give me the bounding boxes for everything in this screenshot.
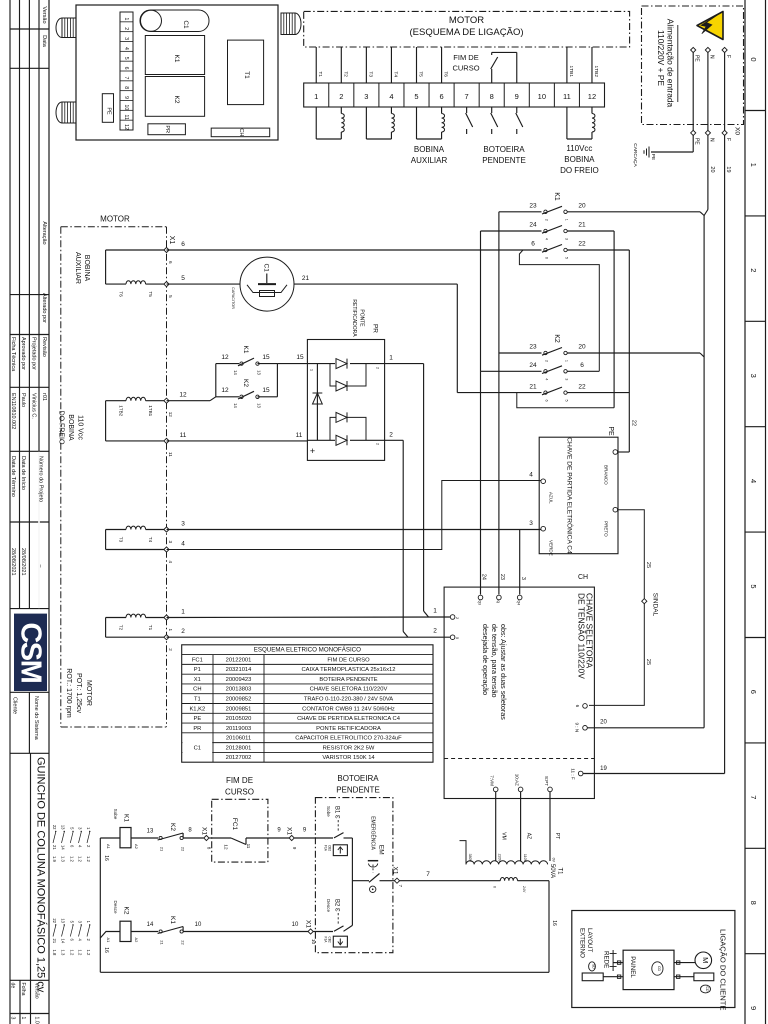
svg-text:T6: T6 — [119, 291, 124, 297]
svg-text:F1A: F1A — [324, 937, 328, 944]
svg-text:VARISTOR 150K 14: VARISTOR 150K 14 — [322, 755, 375, 761]
svg-text:FC1: FC1 — [231, 818, 238, 831]
svg-text:4: 4 — [389, 92, 393, 101]
svg-text:0V: 0V — [551, 858, 555, 863]
svg-text:EXTERNO: EXTERNO — [579, 928, 586, 958]
svg-text:10: 10 — [292, 922, 299, 928]
svg-text:AUXILIAR: AUXILIAR — [411, 156, 448, 165]
svg-text:A1: A1 — [106, 844, 111, 850]
svg-text:SD: SD — [591, 964, 595, 969]
svg-text:C1: C1 — [182, 20, 189, 29]
svg-text:PE: PE — [607, 426, 614, 436]
svg-text:12: 12 — [221, 387, 229, 394]
svg-text:21: 21 — [578, 222, 586, 229]
svg-text:C1: C1 — [263, 264, 270, 273]
svg-text:20: 20 — [578, 203, 586, 210]
svg-text:1: 1 — [389, 355, 393, 362]
svg-text:K2: K2 — [169, 823, 176, 831]
svg-text:F1A: F1A — [324, 845, 328, 852]
svg-text:19: 19 — [725, 166, 731, 172]
svg-text:PR: PR — [193, 726, 201, 732]
svg-text:110V: 110V — [523, 854, 527, 863]
svg-text:LAYOUT: LAYOUT — [586, 928, 593, 953]
svg-text:MOTOR: MOTOR — [100, 215, 130, 224]
svg-text:PE: PE — [106, 107, 112, 115]
svg-text:PE: PE — [650, 154, 656, 160]
svg-text:10: 10 — [538, 92, 546, 101]
svg-text:BOBINA: BOBINA — [414, 145, 445, 154]
svg-text:CH: CH — [238, 128, 244, 136]
svg-text:Data de Término: Data de Término — [10, 456, 16, 497]
svg-text:K1: K1 — [169, 916, 176, 924]
svg-text:CAPACITOR: CAPACITOR — [231, 287, 235, 309]
svg-text:Sobe: Sobe — [113, 809, 118, 820]
svg-text:7: 7 — [123, 76, 129, 79]
svg-text:DE TENSÃO 110/220V: DE TENSÃO 110/220V — [576, 593, 586, 679]
svg-text:6: 6 — [531, 241, 535, 248]
svg-text:11: 11 — [246, 844, 251, 849]
svg-text:PE: PE — [694, 138, 700, 145]
svg-text:7:VM: 7:VM — [490, 775, 495, 786]
svg-text:23: 23 — [499, 574, 505, 580]
svg-text:12: 12 — [168, 412, 173, 418]
svg-text:1TB1: 1TB1 — [148, 405, 153, 416]
svg-text:1.2: 1.2 — [69, 856, 74, 862]
svg-text:T1: T1 — [317, 71, 323, 77]
svg-text:0: 0 — [749, 57, 758, 61]
svg-text:FIM DE: FIM DE — [453, 53, 478, 62]
svg-text:BOBINA: BOBINA — [67, 414, 74, 441]
svg-text:21: 21 — [160, 847, 165, 852]
svg-text:1TB2: 1TB2 — [593, 66, 599, 78]
svg-text:21: 21 — [52, 845, 57, 850]
svg-text:6: 6 — [544, 400, 548, 402]
svg-text:220V: 220V — [497, 854, 501, 863]
svg-text:11: 11 — [180, 432, 187, 439]
svg-text:6: 6 — [544, 257, 548, 259]
svg-text:9: 9 — [749, 1006, 758, 1010]
svg-text:CURSO: CURSO — [452, 64, 479, 73]
svg-text:1.2: 1.2 — [78, 950, 83, 956]
svg-text:RETIFICADORA: RETIFICADORA — [351, 299, 357, 337]
svg-text:14: 14 — [61, 845, 66, 850]
svg-text:CURSO: CURSO — [225, 788, 254, 797]
svg-text:11: 11 — [168, 452, 173, 457]
svg-text:12: 12 — [123, 124, 129, 130]
svg-text:4: 4 — [168, 561, 173, 564]
svg-text:ROT.: 1700 rpm: ROT.: 1700 rpm — [65, 668, 72, 718]
svg-text:14: 14 — [233, 370, 238, 375]
svg-text:BOTOEIRA: BOTOEIRA — [483, 145, 525, 154]
svg-text:K2: K2 — [122, 907, 129, 915]
svg-text:1.3: 1.3 — [61, 950, 66, 956]
svg-text:LIGAÇÃO DO CLIENTE: LIGAÇÃO DO CLIENTE — [719, 929, 728, 1010]
svg-text:MOTOR: MOTOR — [449, 15, 484, 26]
svg-text:Vinicius C.: Vinicius C. — [31, 393, 37, 419]
svg-text:7: 7 — [398, 885, 403, 888]
svg-text:20105020: 20105020 — [226, 716, 252, 722]
svg-text:11: 11 — [123, 115, 129, 120]
svg-text:1.2: 1.2 — [69, 950, 74, 956]
svg-text:12: 12 — [179, 392, 187, 399]
svg-text:6: 6 — [439, 92, 443, 101]
svg-text:23: 23 — [529, 344, 537, 351]
svg-text:5: 5 — [181, 275, 185, 282]
svg-text:CHAVE DE PARTIDA ELETRÔNICA C4: CHAVE DE PARTIDA ELETRÔNICA C4 — [565, 437, 574, 554]
svg-text:CHAVE DE PERTIDA ELETRONICA C4: CHAVE DE PERTIDA ELETRONICA C4 — [297, 716, 401, 722]
svg-text:3: 3 — [9, 1017, 15, 1020]
svg-text:20: 20 — [578, 344, 586, 351]
svg-text:20: 20 — [709, 166, 715, 172]
svg-text:CB2: CB2 — [328, 937, 332, 943]
svg-text:20122001: 20122001 — [226, 657, 252, 663]
svg-text:BRANCO: BRANCO — [604, 465, 609, 485]
svg-text:13: 13 — [147, 829, 154, 835]
svg-text:20009851: 20009851 — [226, 706, 252, 712]
svg-text:X0: X0 — [733, 127, 740, 135]
svg-text:11: 11 — [296, 432, 303, 439]
svg-text:Data de Início: Data de Início — [20, 456, 26, 490]
svg-text:5: 5 — [564, 257, 568, 259]
svg-text:Versão: Versão — [34, 983, 40, 999]
svg-text:T2: T2 — [342, 71, 348, 77]
svg-text:T3: T3 — [367, 71, 373, 77]
svg-text:6: 6 — [168, 261, 173, 264]
svg-text:1.0: 1.0 — [34, 1017, 40, 1024]
svg-text:CHAVE SELETORA 110/220V: CHAVE SELETORA 110/220V — [310, 687, 388, 693]
svg-text:24: 24 — [481, 574, 487, 580]
svg-text:T1: T1 — [243, 71, 250, 79]
svg-text:AUXILIAR: AUXILIAR — [74, 252, 81, 284]
svg-text:EMERGÊNCIA: EMERGÊNCIA — [370, 816, 378, 850]
svg-text:CSM: CSM — [15, 622, 47, 682]
svg-text:22: 22 — [631, 420, 637, 426]
svg-text:0: 0 — [492, 886, 496, 888]
svg-text:X1: X1 — [168, 236, 175, 245]
svg-text:10: 10 — [195, 922, 202, 928]
svg-text:PR: PR — [371, 324, 378, 333]
svg-text:Q: Q — [496, 601, 500, 604]
svg-text:6: 6 — [575, 705, 580, 708]
svg-text:110Vcc: 110Vcc — [566, 144, 592, 153]
svg-text:T4: T4 — [392, 71, 398, 77]
svg-text:22: 22 — [181, 847, 186, 852]
svg-text:VM: VM — [500, 832, 506, 840]
svg-text:15: 15 — [262, 354, 270, 361]
svg-text:Q3: Q3 — [477, 601, 481, 606]
svg-text:20127002: 20127002 — [226, 755, 252, 761]
svg-text:T2: T2 — [119, 625, 124, 631]
svg-text:Número do Projeto: Número do Projeto — [38, 456, 44, 502]
svg-text:Ficha Técnica: Ficha Técnica — [10, 337, 16, 372]
svg-text:BOTOEIRA: BOTOEIRA — [337, 774, 379, 783]
svg-text:B2 Ɛ: B2 Ɛ — [334, 899, 340, 912]
svg-text:CD: CD — [657, 966, 661, 972]
svg-text:DO FREIO: DO FREIO — [57, 411, 64, 445]
svg-text:F: F — [725, 55, 731, 58]
svg-text:N: N — [708, 55, 714, 59]
svg-text:T6: T6 — [443, 71, 449, 77]
svg-text:PT: PT — [554, 833, 560, 839]
svg-text:50VA: 50VA — [549, 864, 555, 878]
svg-text:8: 8 — [123, 86, 129, 89]
svg-text:14: 14 — [147, 922, 154, 928]
svg-text:16: 16 — [103, 855, 109, 861]
svg-text:POT.: 1,25cv: POT.: 1,25cv — [75, 673, 82, 714]
svg-text:PR: PR — [164, 125, 170, 133]
svg-text:CARCAÇA: CARCAÇA — [632, 143, 638, 167]
svg-text:20013803: 20013803 — [226, 687, 252, 693]
svg-text:Alimentação de entrada: Alimentação de entrada — [665, 19, 675, 108]
svg-text:T1: T1 — [148, 625, 153, 631]
svg-text:22: 22 — [578, 241, 586, 248]
svg-text:7: 7 — [749, 795, 758, 799]
svg-text:Versão: Versão — [41, 6, 47, 23]
svg-text:6: 6 — [181, 241, 185, 248]
svg-text:4: 4 — [544, 378, 548, 380]
svg-text:10:AZ: 10:AZ — [515, 774, 520, 786]
svg-text:28/08/2021: 28/08/2021 — [20, 548, 26, 576]
svg-text:22: 22 — [52, 918, 57, 923]
svg-text:2: 2 — [181, 628, 185, 635]
svg-text:SINDAL: SINDAL — [651, 593, 658, 617]
svg-text:110/220V + PE: 110/220V + PE — [656, 30, 666, 86]
svg-text:9 : N: 9 : N — [575, 722, 580, 732]
svg-text:PONTE RETIFICADORA: PONTE RETIFICADORA — [316, 726, 381, 732]
svg-text:AZ: AZ — [525, 833, 531, 839]
svg-text:Cliente: Cliente — [12, 697, 18, 714]
svg-text:3: 3 — [749, 374, 758, 378]
svg-text:2: 2 — [168, 648, 173, 651]
svg-text:7: 7 — [465, 92, 469, 101]
svg-text:3: 3 — [181, 521, 185, 528]
svg-text:1TB2: 1TB2 — [119, 405, 124, 416]
svg-text:1.2: 1.2 — [86, 856, 91, 862]
svg-text:3: 3 — [564, 378, 568, 380]
svg-text:6: 6 — [749, 690, 758, 694]
svg-text:K1: K1 — [173, 55, 180, 63]
svg-text:3: 3 — [564, 238, 568, 240]
svg-text:8: 8 — [749, 901, 758, 905]
svg-text:PENDENTE: PENDENTE — [336, 786, 380, 795]
svg-text:K1: K1 — [553, 192, 560, 201]
svg-text:12: 12 — [224, 844, 229, 850]
svg-text:25: 25 — [645, 659, 651, 665]
svg-text:3: 3 — [123, 37, 129, 40]
svg-text:CH: CH — [578, 574, 588, 581]
svg-text:3: 3 — [364, 92, 368, 101]
svg-text:12: 12 — [588, 92, 596, 101]
svg-text:9: 9 — [515, 92, 519, 101]
svg-text:4: 4 — [544, 238, 548, 240]
svg-text:Sobe: Sobe — [326, 806, 331, 817]
svg-text:380V: 380V — [468, 854, 472, 863]
svg-text:RESISTOR 2K2 5W: RESISTOR 2K2 5W — [323, 745, 375, 751]
svg-text:Alteração: Alteração — [41, 221, 47, 244]
svg-text:1: 1 — [749, 163, 758, 167]
svg-text:Desce: Desce — [326, 899, 331, 912]
svg-text:BOBINA: BOBINA — [83, 255, 90, 282]
svg-text:21: 21 — [160, 940, 165, 945]
svg-text:2: 2 — [544, 219, 548, 221]
svg-text:Alterado por: Alterado por — [41, 293, 47, 323]
svg-text:1: 1 — [564, 360, 568, 362]
svg-text:16: 16 — [551, 920, 557, 926]
svg-text:28/08/2021: 28/08/2021 — [10, 548, 16, 576]
svg-text:1: 1 — [20, 1017, 26, 1020]
svg-text:CD: CD — [705, 987, 709, 992]
svg-text:PONTE: PONTE — [358, 309, 364, 327]
svg-text:PAINEL: PAINEL — [629, 956, 636, 978]
svg-text:BOTEIRA PENDENTE: BOTEIRA PENDENTE — [319, 677, 377, 683]
svg-text:1.2: 1.2 — [86, 950, 91, 956]
svg-text:5: 5 — [414, 92, 418, 101]
svg-text:A2: A2 — [134, 844, 139, 850]
svg-text:1: 1 — [433, 608, 437, 615]
svg-text:Revisão: Revisão — [41, 337, 47, 357]
svg-text:5: 5 — [168, 295, 173, 298]
svg-text:CAIXA TERMOPLASTICA 25x16x12: CAIXA TERMOPLASTICA 25x16x12 — [302, 667, 396, 673]
svg-text:13: 13 — [61, 918, 66, 923]
svg-text:20: 20 — [600, 720, 607, 726]
svg-text:CB2: CB2 — [328, 845, 332, 851]
svg-text:22: 22 — [181, 940, 186, 945]
svg-text:1: 1 — [314, 92, 318, 101]
svg-text:1: 1 — [564, 219, 568, 221]
svg-text:20009852: 20009852 — [226, 697, 252, 703]
svg-text:1.8: 1.8 — [52, 950, 57, 956]
svg-text:Desce: Desce — [113, 900, 118, 913]
svg-text:25: 25 — [645, 562, 651, 568]
svg-text:22: 22 — [52, 825, 57, 830]
svg-text:de tensão, para tensão: de tensão, para tensão — [490, 624, 499, 698]
svg-text:Projetado por: Projetado por — [31, 337, 37, 370]
svg-text:desejada de operação: desejada de operação — [481, 624, 490, 695]
svg-text:Aprovado por: Aprovado por — [20, 337, 26, 370]
svg-text:B1 Ɛ: B1 Ɛ — [334, 806, 340, 819]
svg-text:16: 16 — [103, 947, 109, 953]
svg-text:21: 21 — [52, 939, 57, 944]
svg-text:PRETO: PRETO — [604, 521, 609, 537]
svg-text:11 : F: 11 : F — [571, 768, 576, 780]
svg-text:20009423: 20009423 — [226, 677, 252, 683]
svg-text:23: 23 — [529, 203, 537, 210]
svg-text:A1: A1 — [106, 938, 111, 944]
svg-text:AZUL: AZUL — [549, 492, 554, 504]
svg-text:Folha: Folha — [20, 983, 26, 996]
svg-text:PE: PE — [694, 55, 700, 62]
svg-text:FIM DE: FIM DE — [226, 776, 253, 785]
svg-text:K1: K1 — [122, 814, 129, 822]
svg-text:REDE: REDE — [603, 951, 610, 968]
svg-text:MOTOR: MOTOR — [85, 680, 92, 706]
svg-text:PENDENTE: PENDENTE — [482, 156, 526, 165]
svg-text:110 Vcc: 110 Vcc — [76, 415, 83, 440]
svg-text:6: 6 — [123, 67, 129, 70]
svg-text:21: 21 — [529, 383, 537, 390]
svg-text:EN110810.002: EN110810.002 — [10, 393, 16, 429]
svg-text:2: 2 — [433, 628, 437, 635]
svg-text:1: 1 — [168, 629, 173, 632]
svg-text:12: 12 — [221, 354, 229, 361]
svg-text:13: 13 — [257, 370, 262, 375]
svg-text:T5: T5 — [417, 71, 423, 77]
svg-text:22: 22 — [578, 383, 586, 390]
svg-text:15: 15 — [262, 387, 270, 394]
svg-text:3: 3 — [529, 520, 533, 527]
svg-text:20321014: 20321014 — [226, 667, 253, 673]
svg-text:EM: EM — [378, 845, 385, 855]
svg-text:1.3: 1.3 — [61, 856, 66, 862]
svg-text:P1: P1 — [194, 667, 201, 673]
svg-text:2: 2 — [544, 360, 548, 362]
svg-text:K1,K2: K1,K2 — [189, 706, 205, 712]
svg-text:24: 24 — [529, 222, 537, 229]
svg-text:8: 8 — [207, 847, 212, 850]
svg-text:Data: Data — [41, 35, 47, 48]
svg-text:8: 8 — [490, 92, 494, 101]
svg-text:F: F — [725, 138, 731, 141]
svg-text:Q4: Q4 — [517, 601, 521, 606]
svg-text:7: 7 — [426, 871, 430, 878]
svg-text:21: 21 — [302, 275, 310, 282]
svg-text:1TB1: 1TB1 — [568, 66, 574, 78]
svg-text:A2: A2 — [134, 938, 139, 944]
svg-text:T1: T1 — [194, 697, 201, 703]
svg-text:CONTATOR CWB9 11 24V 50/60Hz: CONTATOR CWB9 11 24V 50/60Hz — [302, 706, 395, 712]
svg-text:K2: K2 — [242, 379, 249, 387]
svg-text:2: 2 — [749, 268, 758, 272]
svg-text:X1: X1 — [194, 677, 201, 683]
svg-text:4: 4 — [749, 479, 758, 483]
svg-text:+: + — [310, 446, 315, 456]
svg-text:3: 3 — [520, 577, 526, 580]
svg-text:DO FREIO: DO FREIO — [560, 166, 599, 175]
svg-text:TRAFO 0-110-220-380 / 24V 50VA: TRAFO 0-110-220-380 / 24V 50VA — [304, 697, 393, 703]
svg-text:20119003: 20119003 — [226, 726, 251, 732]
svg-text:8:PT: 8:PT — [544, 776, 549, 786]
svg-text:24V: 24V — [522, 886, 526, 893]
svg-text:10: 10 — [123, 105, 129, 111]
svg-text:T5: T5 — [148, 291, 153, 297]
svg-text:X1: X1 — [200, 827, 207, 835]
svg-text:9: 9 — [292, 847, 297, 850]
svg-text:X1: X1 — [285, 827, 292, 835]
svg-text:1.9: 1.9 — [52, 856, 57, 862]
svg-text:GUINCHO DE COLUNA MONOFÁSICO 1: GUINCHO DE COLUNA MONOFÁSICO 1,25 cv — [34, 757, 47, 993]
svg-text:5: 5 — [123, 57, 129, 60]
svg-text:3: 3 — [168, 541, 173, 544]
svg-text:5: 5 — [564, 400, 568, 402]
svg-text:T4: T4 — [148, 537, 153, 543]
svg-text:K2: K2 — [553, 334, 560, 343]
svg-text:K2: K2 — [173, 96, 180, 104]
svg-text:19: 19 — [600, 766, 607, 772]
svg-text:20128001: 20128001 — [226, 745, 252, 751]
svg-text:2: 2 — [339, 92, 343, 101]
svg-text:X1: X1 — [304, 920, 311, 928]
svg-text:BOBINA: BOBINA — [564, 155, 595, 164]
svg-text:C1: C1 — [194, 745, 201, 751]
svg-text:N: N — [708, 138, 714, 142]
svg-text:X1: X1 — [391, 867, 398, 875]
svg-text:Paulo: Paulo — [20, 393, 26, 407]
svg-text:5: 5 — [749, 584, 758, 588]
svg-text:2: 2 — [389, 432, 393, 439]
svg-text:T3: T3 — [119, 537, 124, 543]
svg-text:13: 13 — [257, 403, 262, 408]
svg-text:Nome do Sistema: Nome do Sistema — [33, 696, 39, 741]
